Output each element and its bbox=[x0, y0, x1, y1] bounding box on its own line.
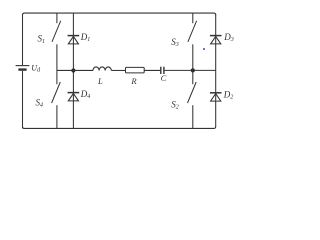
wire right diode branch bbox=[215, 14, 217, 127]
svg-text:D4: D4 bbox=[80, 89, 91, 100]
switch S1 bbox=[52, 13, 61, 71]
svg-text:S4: S4 bbox=[36, 97, 44, 108]
node A left midpoint junction bbox=[71, 68, 75, 72]
svg-text:D3: D3 bbox=[223, 32, 234, 43]
diode D2 bbox=[210, 93, 222, 101]
switch S2 bbox=[188, 70, 197, 128]
svg-text:L: L bbox=[97, 76, 103, 86]
wire top bus bbox=[23, 13, 216, 15]
wire load line left segment bbox=[57, 69, 93, 71]
svg-text:D1: D1 bbox=[80, 32, 91, 43]
svg-text:Ud: Ud bbox=[31, 63, 41, 73]
resistor R bbox=[126, 67, 145, 73]
wire C to right leg bbox=[165, 69, 216, 71]
stray blue mark bbox=[203, 48, 205, 50]
capacitor C bbox=[161, 67, 164, 74]
battery Ud positive plate bbox=[16, 65, 30, 67]
wire battery bottom lead bbox=[22, 71, 24, 129]
wire battery top lead bbox=[22, 14, 24, 65]
inductor L bbox=[93, 67, 111, 71]
wire L to R bbox=[111, 69, 125, 71]
svg-text:R: R bbox=[130, 76, 137, 86]
switch S3 bbox=[188, 13, 197, 71]
wire left diode branch bbox=[72, 13, 74, 129]
wire R to C bbox=[144, 69, 160, 71]
svg-text:D2: D2 bbox=[223, 89, 234, 100]
svg-text:C: C bbox=[161, 73, 167, 83]
diode D1 bbox=[68, 36, 80, 44]
svg-text:S2: S2 bbox=[171, 100, 179, 111]
wire bottom bus bbox=[23, 127, 216, 129]
battery Ud negative plate bbox=[18, 68, 26, 70]
diode D4 bbox=[68, 93, 80, 101]
diode D3 bbox=[210, 36, 222, 44]
switch S4 bbox=[52, 70, 61, 128]
svg-text:S1: S1 bbox=[38, 34, 46, 45]
node B right midpoint junction bbox=[191, 68, 195, 72]
svg-text:S3: S3 bbox=[171, 37, 179, 48]
